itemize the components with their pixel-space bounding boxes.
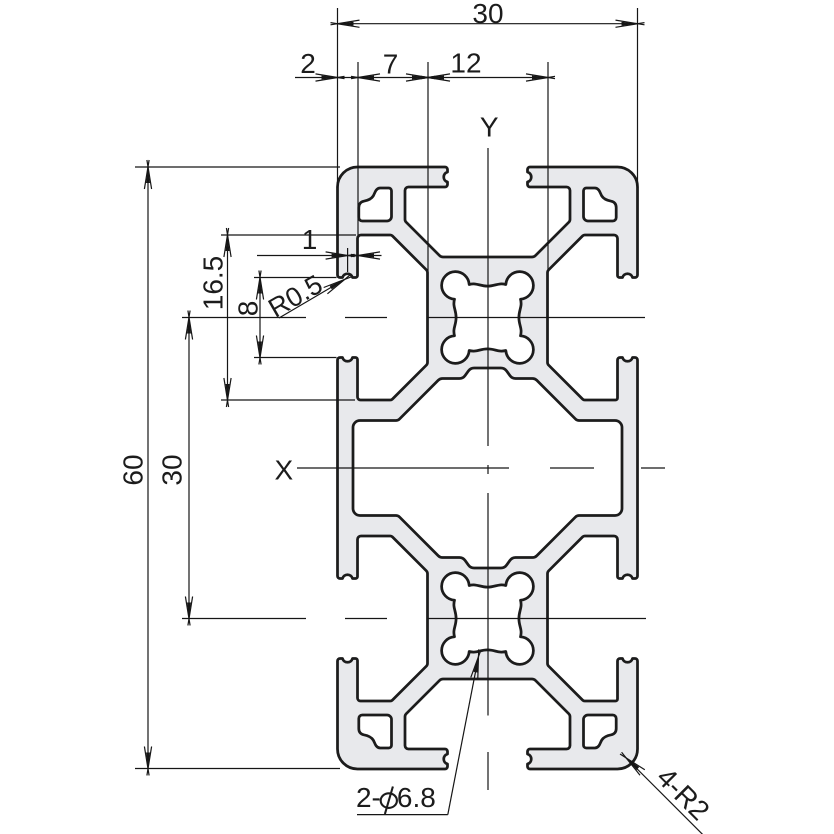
svg-text:7: 7 — [383, 49, 399, 80]
svg-text:6.8: 6.8 — [397, 782, 436, 813]
svg-text:16.5: 16.5 — [198, 256, 229, 311]
svg-text:Y: Y — [480, 112, 499, 143]
svg-text:30: 30 — [472, 0, 503, 29]
svg-text:60: 60 — [118, 454, 149, 485]
svg-text:30: 30 — [157, 454, 188, 485]
svg-text:12: 12 — [450, 48, 481, 79]
svg-text:2: 2 — [300, 48, 316, 79]
svg-text:8: 8 — [233, 301, 264, 317]
svg-text:2-: 2- — [356, 782, 381, 813]
svg-text:X: X — [274, 455, 293, 486]
svg-text:1: 1 — [302, 224, 318, 255]
